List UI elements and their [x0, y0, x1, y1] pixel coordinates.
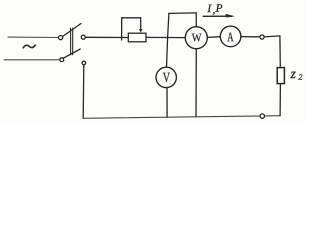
- voltmeter U3 letter V: [163, 73, 170, 82]
- wire bottom-left from source to switch: [4, 59, 60, 61]
- wire wattmeter bottom down to bottom rail: [195, 49, 197, 117]
- ammeter U2 letter A: [227, 33, 233, 42]
- wire terminal to top-right corner: [264, 36, 280, 37]
- bottom rail wire: [83, 116, 280, 119]
- switch S1 top-left terminal: [59, 36, 63, 40]
- wattmeter voltage-coil loop drop to W top: [195, 13, 197, 27]
- load Z2 label: [290, 72, 295, 78]
- switch S1 linkage bar left: [70, 28, 72, 55]
- rheostat R1 tap loop: top horizontal: [122, 17, 141, 19]
- wattmeter voltage-coil loop top wire: [169, 12, 196, 15]
- rheostat R1 tap loop: drop to wiper: [140, 18, 142, 30]
- current/power direction arrow: [203, 15, 231, 17]
- wire rheostat to wattmeter: [146, 36, 185, 38]
- switch S1 bottom-left terminal: [60, 58, 64, 62]
- wire down right side to load: [279, 36, 281, 68]
- wire junction down to voltmeter: [167, 38, 168, 68]
- ammeter U2 (A) body: [220, 26, 241, 47]
- rheostat R1 wiper arrowhead: [139, 29, 142, 33]
- node J1: voltmeter/wattmeter potential tap on main wire: [168, 14, 169, 38]
- wire wattmeter to ammeter: [207, 36, 220, 39]
- output terminal top: [260, 35, 264, 39]
- rheostat R1 body: [128, 33, 146, 42]
- wire voltmeter bottom to bottom rail: [166, 88, 168, 118]
- switch S1 top blade: [63, 24, 81, 37]
- load Z2 body: [277, 68, 284, 84]
- wire switch to rheostat: [85, 36, 128, 38]
- wire top-left from source to switch: [8, 36, 58, 38]
- switch S1 bottom-right terminal: [82, 61, 86, 65]
- voltmeter U3 (V) body: [156, 67, 176, 87]
- wire switch bottom terminal down to bottom rail: [82, 65, 85, 119]
- wattmeter U1 (W) body: [185, 27, 207, 49]
- switch S1 bottom blade: [63, 49, 80, 58]
- output terminal bottom on rail: [260, 114, 264, 118]
- wattmeter U1 letter W: [192, 34, 202, 42]
- wire ammeter to output terminal: [241, 36, 260, 38]
- AC source symbol ~: [23, 45, 35, 48]
- wire load bottom to bottom rail: [279, 84, 281, 116]
- switch S1 linkage bar right: [72, 28, 74, 55]
- label I,P: [207, 4, 222, 15]
- switch S1 top-right terminal: [81, 35, 85, 39]
- rheostat R1 tap loop: riser from wire: [121, 18, 123, 40]
